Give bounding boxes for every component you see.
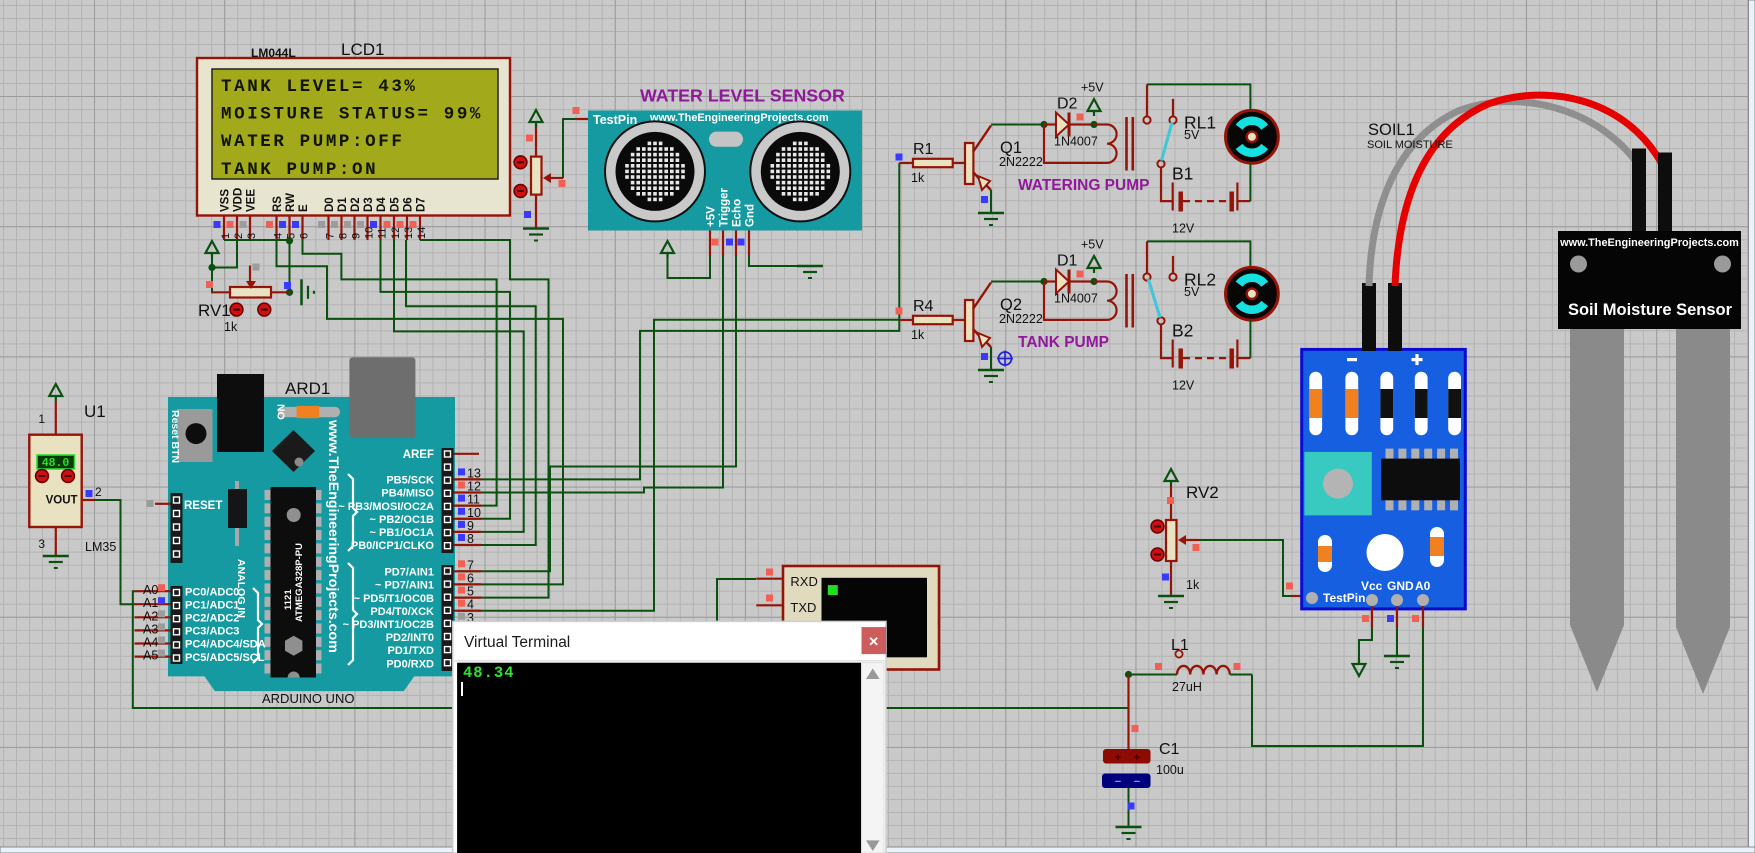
blue crosshair marker	[997, 351, 1013, 367]
sensor pin +5V	[706, 206, 718, 256]
module A0 stub	[1422, 606, 1424, 628]
ultrasonic water level sensor board	[588, 111, 862, 231]
svg-text:B1: B1	[1172, 164, 1193, 184]
red square TXD	[766, 595, 773, 602]
svg-text:48.0: 48.0	[42, 457, 70, 470]
svg-text:PB4/MISO: PB4/MISO	[381, 488, 434, 500]
RV2 wire top	[1170, 486, 1172, 520]
svg-text:VDD: VDD	[233, 188, 245, 212]
sensor left transducer	[605, 121, 705, 221]
module small pill left	[1318, 535, 1332, 572]
svg-text:PB5/SCK: PB5/SCK	[386, 475, 434, 487]
svg-text:RESET: RESET	[184, 500, 222, 512]
svg-text:D2: D2	[350, 197, 362, 212]
svg-text:8: 8	[337, 233, 349, 239]
svg-text:3: 3	[246, 233, 258, 239]
Arduino UNO board ARD1	[168, 397, 455, 691]
svg-text:3: 3	[38, 537, 45, 551]
U1 pin 2 stub	[82, 499, 95, 501]
power +5V arrow RL1	[1088, 99, 1101, 111]
wire Gnd pin right	[749, 256, 810, 266]
svg-text:+5V: +5V	[706, 206, 718, 227]
wire A0 to bottom bus	[133, 591, 1129, 708]
svg-text:A0: A0	[1415, 579, 1431, 593]
svg-text:1: 1	[220, 233, 232, 239]
module white circle	[1367, 534, 1404, 571]
module terminal pin minus	[1362, 283, 1376, 351]
svg-text:10: 10	[467, 506, 481, 520]
red square R4 left	[896, 308, 903, 315]
Arduino right header bottom	[442, 565, 454, 671]
svg-text:GND: GND	[1387, 579, 1414, 593]
LCD1 pin 14 D7	[410, 197, 428, 240]
svg-text:−: −	[1115, 776, 1121, 788]
svg-text:TANK LEVEL= 43%: TANK LEVEL= 43%	[221, 77, 418, 97]
svg-text:100u: 100u	[1156, 763, 1184, 777]
svg-text:−: −	[1134, 776, 1140, 788]
red square RXD	[766, 569, 773, 576]
junction dot D2 cathode	[1090, 121, 1097, 128]
Arduino pin A3	[135, 622, 240, 637]
Arduino pin 5 ~ PD5/T1/OC0B	[354, 585, 481, 605]
Arduino pin 7 PD7/AIN1	[384, 558, 481, 578]
svg-text:PC2/ADC2: PC2/ADC2	[185, 613, 239, 625]
svg-text:13: 13	[467, 466, 481, 480]
module Vcc stub	[1371, 606, 1373, 628]
svg-text:48.34: 48.34	[463, 664, 515, 682]
svg-text:WATERING PUMP: WATERING PUMP	[1018, 177, 1149, 194]
svg-text:RW: RW	[285, 193, 297, 212]
svg-text:+: +	[1115, 752, 1121, 764]
svg-text:12V: 12V	[1172, 222, 1195, 236]
svg-text:ARDUINO UNO: ARDUINO UNO	[262, 691, 354, 706]
Arduino pin A1	[135, 596, 240, 611]
red square near D1	[1077, 271, 1084, 278]
wire Arduino TXD to RXD terminal	[717, 579, 756, 625]
Arduino pin 2 PD2/INT0	[386, 632, 434, 644]
module resistor pill 2	[1345, 372, 1358, 436]
junction dot RW node	[286, 237, 293, 244]
wire Q2 emitter to ground	[990, 347, 992, 370]
potentiometer contrast	[514, 156, 563, 228]
svg-text:✕: ✕	[868, 634, 879, 649]
wire module A0 to L1	[1252, 628, 1423, 746]
Arduino pin A0	[135, 583, 240, 598]
svg-text:B2: B2	[1172, 321, 1193, 341]
wire LCD D7 to Arduino	[420, 240, 549, 598]
svg-text:A0: A0	[143, 583, 158, 597]
Arduino pin A2	[135, 609, 240, 624]
Virtual Terminal window	[453, 621, 886, 853]
svg-text:2: 2	[233, 233, 245, 239]
temperature sensor U1 LM35	[29, 402, 116, 554]
svg-text:A1: A1	[143, 596, 158, 610]
svg-text:~ PB3/MOSI/OC2A: ~ PB3/MOSI/OC2A	[338, 501, 434, 513]
wire RL1 pole to battery	[1161, 167, 1173, 201]
LCD1 pin 8 D1	[331, 197, 349, 240]
svg-text:VEE: VEE	[246, 189, 258, 212]
svg-text:PB0/ICP1/CLKO: PB0/ICP1/CLKO	[351, 540, 435, 552]
svg-text:VOUT: VOUT	[46, 495, 78, 507]
resistor R1	[899, 141, 965, 185]
Arduino pin A4	[135, 636, 266, 651]
Arduino pin 0 PD0/RXD	[386, 658, 434, 670]
power +5V arrow above contrast pot	[530, 110, 543, 122]
module trimmer teal square	[1304, 452, 1371, 516]
svg-text:Trigger: Trigger	[719, 187, 731, 227]
svg-text:9: 9	[350, 233, 362, 239]
gray square near RV1 wiper	[253, 264, 260, 271]
LCD1 pin 5 RW	[279, 193, 297, 240]
gray square RESET	[147, 500, 154, 507]
LCD1 pin 10 D3	[357, 197, 375, 240]
soil sensor cable red	[1395, 95, 1663, 286]
serial terminal component RXD TXD	[756, 566, 939, 670]
Arduino USB connector	[217, 374, 264, 452]
svg-text:4: 4	[272, 233, 284, 239]
potentiometer RV2	[1151, 483, 1219, 596]
power +5V arrow at RV1	[206, 241, 219, 253]
LCD1 pin 13 D6	[397, 197, 415, 240]
Arduino reset button	[169, 409, 213, 463]
Arduino pin 8 PB0/ICP1/CLKO	[351, 532, 481, 552]
svg-text:D4: D4	[376, 197, 388, 212]
svg-text:~ PB1/OC1A: ~ PB1/OC1A	[370, 527, 435, 539]
svg-text:10: 10	[363, 227, 375, 239]
blue square R1 left	[896, 154, 903, 161]
svg-text:9: 9	[467, 519, 474, 533]
U1 pin 3 stub	[55, 527, 57, 556]
svg-text:A4: A4	[143, 636, 158, 650]
svg-text:RXD: RXD	[790, 574, 817, 589]
junction dot bus L1 C1	[1125, 671, 1132, 678]
svg-text:2: 2	[95, 485, 102, 499]
svg-text:6: 6	[467, 571, 474, 585]
wire relay RL1 top	[1147, 84, 1250, 110]
Arduino pin 1 PD1/TXD	[388, 645, 435, 657]
svg-text:SOIL1: SOIL1	[1368, 121, 1415, 139]
ground below RV2	[1158, 595, 1184, 598]
blue square Q1 emitter	[981, 196, 988, 203]
wire TestPin stub	[575, 118, 588, 120]
power arrow down module Vcc	[1353, 664, 1366, 676]
wire VSS-RW bus	[224, 239, 290, 241]
sensor pin Echo	[732, 199, 744, 256]
battery B2 12V	[1172, 321, 1250, 393]
Arduino pin A5	[135, 649, 265, 664]
svg-text:Gnd: Gnd	[745, 204, 757, 227]
soil sensor prong right	[1676, 329, 1730, 694]
relay switch RL1	[1143, 84, 1216, 167]
wire LCD E to Arduino	[303, 240, 497, 506]
svg-text:PC5/ADC5/SCL: PC5/ADC5/SCL	[185, 652, 265, 664]
blue square RV1 right	[284, 282, 291, 289]
wire relay RL2 top	[1147, 241, 1250, 267]
wire U1 VOUT to A1	[95, 500, 135, 604]
LCD1 pin 11 D4	[370, 197, 388, 240]
svg-text:PD2/INT0: PD2/INT0	[386, 632, 434, 644]
svg-text:+5V: +5V	[1081, 81, 1104, 95]
Arduino pin 6 ~ PD7/AIN1	[375, 571, 481, 591]
svg-text:C1: C1	[1159, 741, 1180, 758]
wire RL2 pole to battery	[1161, 324, 1173, 358]
svg-text:D3: D3	[363, 197, 375, 212]
svg-text:MOISTURE STATUS= 99%: MOISTURE STATUS= 99%	[221, 105, 483, 125]
blue square C1 bottom	[1128, 803, 1135, 810]
svg-text:www.TheEngineeringProjects.com: www.TheEngineeringProjects.com	[1559, 237, 1739, 249]
svg-text:2N2222: 2N2222	[999, 155, 1043, 169]
blue square RV2 bottom	[1162, 574, 1169, 581]
svg-text:TANK PUMP:ON: TANK PUMP:ON	[221, 160, 378, 180]
svg-text:A2: A2	[143, 609, 158, 623]
soil sensor head pin left	[1632, 149, 1646, 232]
red square module Vcc	[1362, 615, 1369, 622]
sensor pin Trigger	[719, 187, 731, 256]
svg-text:~ PD3/INT1/OC2B: ~ PD3/INT1/OC2B	[343, 619, 434, 631]
svg-text:E: E	[298, 204, 310, 212]
svg-text:1N4007: 1N4007	[1054, 292, 1098, 306]
wire D1 parallel	[1044, 282, 1107, 320]
blue square U1 pin2	[86, 490, 93, 497]
svg-text:1k: 1k	[911, 328, 925, 342]
relay switch RL2	[1143, 241, 1216, 324]
junction dot D1 anode	[1040, 278, 1047, 285]
svg-text:PD4/T0/XCK: PD4/T0/XCK	[370, 606, 434, 618]
junction dot RV1 right node	[286, 289, 293, 296]
inductor L1 27uH	[1129, 637, 1253, 694]
module TestPin stub	[1291, 595, 1306, 597]
svg-text:R4: R4	[913, 298, 934, 315]
module resistor pill 4	[1415, 372, 1428, 436]
svg-text:1k: 1k	[911, 171, 925, 185]
LCD1 pin 4 RS	[266, 196, 284, 240]
module terminal pin plus	[1388, 283, 1402, 351]
window edge bottom	[0, 847, 1755, 853]
module small pill right	[1430, 527, 1444, 567]
relay coil RL1	[1094, 117, 1133, 171]
ground sideways at RV1	[300, 279, 303, 305]
potentiometer RV1	[198, 266, 290, 335]
svg-text:14: 14	[416, 227, 428, 239]
wire sensor Echo to Arduino	[457, 256, 736, 571]
svg-text:D2: D2	[1057, 96, 1078, 113]
junction dot D1 cathode	[1090, 278, 1097, 285]
red square L1 left	[1155, 663, 1162, 670]
blue square pot bottom	[524, 211, 531, 218]
svg-text:PD7/AIN1: PD7/AIN1	[384, 567, 434, 579]
Arduino fuse with orange band	[275, 404, 341, 420]
wire +5V pin to arrow	[668, 256, 711, 278]
Arduino capacitor element	[228, 481, 247, 546]
Arduino analog bracket	[253, 588, 262, 663]
wire LCD D4 to Arduino	[381, 240, 511, 519]
transistor Q2 2N2222	[965, 283, 1043, 348]
red square RV2 wiper	[1193, 544, 1200, 551]
wire arrow to pot	[535, 127, 537, 157]
resistor R4	[899, 298, 965, 342]
svg-text:D0: D0	[324, 197, 336, 212]
svg-text:PC0/ADC0: PC0/ADC0	[185, 586, 239, 598]
svg-text:11: 11	[467, 493, 480, 507]
wire LCD RS to Arduino	[277, 240, 564, 584]
svg-text:7: 7	[324, 233, 336, 239]
module pin labels	[1323, 579, 1431, 605]
svg-text:LCD1: LCD1	[341, 40, 384, 59]
svg-text:AREF: AREF	[403, 449, 434, 461]
svg-text:PC3/ADC3: PC3/ADC3	[185, 626, 239, 638]
junction dot VDD node	[208, 264, 215, 271]
junction dot D2 anode	[1040, 121, 1047, 128]
svg-text:ATMEGA328P-PU: ATMEGA328P-PU	[294, 543, 305, 622]
diode D2 1N4007	[1044, 96, 1098, 149]
svg-text:12V: 12V	[1172, 379, 1195, 393]
red square sensor +5V	[712, 239, 719, 246]
LCD1 pin 6 E	[292, 204, 310, 240]
svg-text:12: 12	[390, 227, 402, 239]
svg-text:~ PD5/T1/OC0B: ~ PD5/T1/OC0B	[354, 593, 434, 605]
soil sensor cable gray	[1369, 102, 1637, 286]
module plus label	[1412, 354, 1423, 365]
Arduino pin 12 PB4/MISO	[381, 480, 481, 500]
Arduino right header top	[442, 448, 454, 553]
ground below U1	[43, 555, 69, 558]
wire R1 to Arduino pin13	[457, 163, 899, 479]
sensor right transducer	[750, 121, 850, 221]
Arduino pin 10 ~ PB2/OC1B	[370, 506, 482, 526]
svg-text:+5V: +5V	[1081, 238, 1104, 252]
soil sensor prong left	[1570, 329, 1624, 692]
svg-text:LM35: LM35	[85, 540, 116, 554]
wire module GND down	[1396, 628, 1398, 656]
svg-text:2N2222: 2N2222	[999, 312, 1043, 326]
svg-text:7: 7	[467, 558, 474, 572]
wire VDD net	[212, 240, 237, 268]
Arduino right bracket bottom	[348, 563, 357, 665]
svg-text:SOIL MOISTURE: SOIL MOISTURE	[1367, 139, 1453, 151]
svg-text:13: 13	[403, 227, 415, 239]
relay coil RL2	[1094, 274, 1133, 328]
soil sensor head pin right	[1658, 153, 1672, 232]
Arduino crystal diamond	[272, 430, 315, 472]
svg-text:PC4/ADC4/SDA: PC4/ADC4/SDA	[185, 639, 266, 651]
svg-text:~ PB2/OC1B: ~ PB2/OC1B	[370, 514, 435, 526]
wire D2 parallel	[1044, 125, 1107, 163]
svg-text:PD0/RXD: PD0/RXD	[386, 658, 434, 670]
power +5V arrow RL2	[1088, 256, 1101, 268]
ground below sensor	[797, 265, 823, 268]
svg-text:LM044L: LM044L	[251, 46, 296, 60]
svg-text:27uH: 27uH	[1172, 680, 1202, 694]
svg-text:5V: 5V	[1184, 128, 1200, 142]
Arduino pin 4 PD4/T0/XCK	[370, 598, 481, 618]
svg-text:TANK PUMP: TANK PUMP	[1018, 334, 1109, 351]
Arduino RESET header	[171, 493, 223, 563]
wire U1 pin 1	[55, 401, 57, 435]
Arduino pin 13 PB5/SCK	[386, 466, 481, 486]
wire LCD D6 to Arduino	[406, 240, 536, 545]
red square L1 right	[1234, 663, 1241, 670]
Arduino right bracket top	[348, 474, 357, 551]
ground below Q1	[978, 212, 1004, 215]
battery B1 12V	[1172, 164, 1250, 236]
Arduino analog header	[171, 586, 183, 664]
svg-text:~ PD7/AIN1: ~ PD7/AIN1	[375, 580, 434, 592]
svg-text:Soil Moisture Sensor: Soil Moisture Sensor	[1568, 301, 1733, 319]
svg-text:D1: D1	[337, 197, 349, 212]
module resistor pill 1	[1309, 372, 1322, 436]
LCD1 pin 9 D2	[344, 197, 362, 240]
svg-text:U1: U1	[84, 402, 106, 421]
wire RV1 top	[211, 258, 213, 292]
svg-text:11: 11	[376, 228, 388, 239]
svg-text:RV1: RV1	[198, 301, 231, 320]
module pin pads	[1306, 592, 1429, 606]
wire LCD D5 to Arduino	[394, 240, 524, 532]
svg-text:A3: A3	[143, 622, 158, 636]
ground below module	[1384, 655, 1410, 658]
Arduino RESET stub	[155, 503, 171, 505]
svg-text:RV2: RV2	[1186, 483, 1219, 502]
wire R4 to Arduino pin4	[457, 320, 899, 611]
svg-text:Virtual Terminal: Virtual Terminal	[464, 634, 570, 651]
LCD1 pin 1 VSS	[214, 189, 232, 240]
LCD display LCD1 LM044L	[197, 40, 510, 216]
module resistor pill 5	[1448, 372, 1461, 436]
svg-text:A5: A5	[143, 649, 158, 663]
svg-text:1: 1	[38, 412, 45, 426]
svg-text:PD1/TXD: PD1/TXD	[388, 645, 435, 657]
svg-text:TestPin: TestPin	[593, 113, 637, 127]
svg-text:Reset BTN: Reset BTN	[169, 410, 181, 463]
red square TestPin wire	[573, 107, 580, 114]
Arduino ATMEGA328 chip	[265, 487, 322, 678]
svg-text:D5: D5	[390, 197, 402, 212]
blue square Q2 emitter	[981, 353, 988, 360]
svg-text:4: 4	[467, 598, 474, 612]
wire sensor Trigger to Arduino	[457, 256, 723, 493]
red square contrast pot top	[526, 135, 533, 142]
red square near D2	[1077, 114, 1084, 121]
LCD1 pin 7 D0	[318, 197, 336, 240]
capacitor C1 100u	[1102, 675, 1184, 828]
wire module Vcc to arrow	[1359, 628, 1372, 663]
red square C1 top	[1132, 725, 1139, 732]
LCD1 pin 3 VEE	[240, 189, 258, 240]
svg-text:RS: RS	[272, 196, 284, 212]
svg-text:VSS: VSS	[220, 189, 232, 212]
Arduino pin 11 ~ PB3/MOSI/OC2A	[338, 493, 481, 513]
module minus label	[1347, 358, 1357, 361]
motor for RL2	[1226, 267, 1279, 320]
ground below Q2	[978, 369, 1004, 372]
module GND stub	[1396, 606, 1398, 628]
window edge right	[1749, 0, 1755, 853]
wire wiper to TestPin	[563, 119, 575, 178]
svg-text:NO: NO	[275, 404, 287, 420]
power +5V arrow above U1	[49, 384, 62, 396]
svg-text:Echo: Echo	[732, 199, 744, 227]
Arduino power jack	[349, 357, 415, 438]
svg-text:WATER PUMP:OFF: WATER PUMP:OFF	[221, 132, 404, 152]
svg-text:L1: L1	[1171, 637, 1189, 654]
svg-text:PC1/ADC1: PC1/ADC1	[185, 599, 239, 611]
transistor Q1 2N2222	[965, 126, 1043, 191]
blue square sensor Trigger	[726, 239, 733, 246]
svg-text:+: +	[1134, 752, 1140, 764]
wire motor RL1 bottom	[1249, 163, 1251, 201]
Arduino AREF pin	[403, 449, 479, 461]
svg-text:1121: 1121	[283, 589, 294, 610]
